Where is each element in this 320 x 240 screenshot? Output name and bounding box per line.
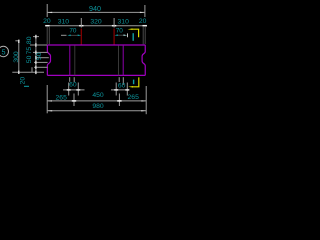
svg-text:80: 80 xyxy=(26,36,33,44)
60 dim left line xyxy=(63,89,85,91)
beam interior vertical magenta right xyxy=(122,45,124,75)
svg-text:50: 50 xyxy=(36,52,43,60)
yellow leader bottom xyxy=(133,77,139,86)
svg-text:70: 70 xyxy=(116,28,124,35)
svg-text:310: 310 xyxy=(58,19,70,26)
svg-text:450: 450 xyxy=(92,92,104,99)
ext y52.4 xyxy=(33,51,48,53)
dim 940 ext line right xyxy=(144,5,146,17)
vert dim line x35.9 xyxy=(35,37,37,73)
cyan bar bottom right xyxy=(133,80,135,85)
red centerline left xyxy=(80,29,82,45)
dim 70 left arrow a xyxy=(67,35,71,37)
row2 tick x145 xyxy=(143,25,147,27)
beam bottom edge xyxy=(47,74,145,76)
cyan dash xyxy=(24,85,29,87)
dim 940 arrow right xyxy=(140,12,145,13)
beam interior vertical magenta left xyxy=(69,45,71,75)
svg-text:60: 60 xyxy=(69,82,77,89)
svg-text:20: 20 xyxy=(20,77,27,85)
white stub above red right xyxy=(113,18,115,28)
stub below beam x69.7 xyxy=(69,77,71,82)
svg-text:70: 70 xyxy=(69,28,77,35)
yellow leader top xyxy=(132,29,139,37)
60 dim left ext b xyxy=(77,83,79,96)
60 dim left cross b xyxy=(76,89,80,91)
ext y36.6 xyxy=(33,36,39,38)
60 dim right ext b xyxy=(126,83,128,96)
60 dim right cross b xyxy=(125,89,129,91)
svg-text:20: 20 xyxy=(139,18,147,25)
ext y62.4 xyxy=(34,61,48,63)
beam right edge with notch xyxy=(142,45,145,75)
white stub above red left xyxy=(80,18,82,28)
980 arrow right xyxy=(141,110,146,111)
60 dim right ext a xyxy=(115,83,117,96)
faint ext verticals right pair xyxy=(142,27,144,44)
60 dim left cross a xyxy=(67,89,71,91)
red centerline right xyxy=(113,29,115,45)
dim 70 left arrow b xyxy=(78,35,82,37)
left balloon circle xyxy=(0,46,8,56)
svg-text:265: 265 xyxy=(56,94,68,101)
dim 70 right mid faint xyxy=(118,34,124,36)
980 arrow left xyxy=(47,110,52,111)
vert dim line x18.8 xyxy=(18,41,20,72)
ext y45 xyxy=(30,44,47,46)
ext y72.3 long xyxy=(12,71,44,73)
980 dim line xyxy=(47,110,146,112)
tick 47 xyxy=(47,100,52,101)
tick 119 xyxy=(117,100,121,102)
stub below beam x123.3 xyxy=(122,77,124,85)
265 row boundary vertical right xyxy=(118,94,120,107)
svg-text:60: 60 xyxy=(118,82,126,89)
svg-text:300: 300 xyxy=(13,51,20,63)
dim 70 left line tail xyxy=(61,34,67,36)
faint ext verticals left pair xyxy=(46,27,48,44)
bottom ext vertical left xyxy=(46,85,48,113)
beam interior vertical dark right xyxy=(118,46,120,76)
row2 tick x47 xyxy=(45,25,49,27)
dim 940 ext line left xyxy=(46,4,48,17)
svg-text:265: 265 xyxy=(128,94,140,101)
ext y67.3 xyxy=(34,66,48,68)
svg-text:310: 310 xyxy=(118,19,130,26)
60 dim right cross a xyxy=(114,89,118,91)
dim 940 line xyxy=(47,11,145,13)
dim 940 arrow left xyxy=(47,12,52,13)
beam interior vertical dark left xyxy=(74,46,76,76)
cyan ext vertical x132 xyxy=(132,33,134,41)
row2 tick x114 xyxy=(112,25,116,27)
svg-text:5: 5 xyxy=(2,48,6,57)
stub below beam x74.2 xyxy=(73,77,75,82)
tick 74 xyxy=(72,100,76,102)
svg-text:980: 980 xyxy=(92,103,104,110)
stub below beam x119.2 xyxy=(118,77,120,82)
beam top edge xyxy=(47,44,145,46)
cap tick top of x18.8 xyxy=(15,40,19,42)
svg-text:320: 320 xyxy=(90,19,102,26)
beam left edge with notch xyxy=(47,45,50,75)
60 dim right line xyxy=(111,89,127,91)
row2 tick x81 xyxy=(79,25,83,27)
dim 70 right arrow a xyxy=(114,34,118,36)
dim 70 left mid faint xyxy=(71,34,78,36)
svg-text:50: 50 xyxy=(26,55,33,63)
row2 dim line xyxy=(46,25,147,27)
dim 70 right arrow b xyxy=(124,34,128,36)
60 dim left ext a xyxy=(68,83,70,96)
svg-text:940: 940 xyxy=(89,4,101,13)
ext y57.7 xyxy=(37,57,49,59)
bottom ext vertical right xyxy=(145,86,147,114)
tick 146 xyxy=(141,100,146,101)
svg-text:20: 20 xyxy=(43,18,51,25)
265 row boundary vertical left xyxy=(73,94,75,107)
dim chain bright ticks xyxy=(35,43,37,47)
svg-text:75: 75 xyxy=(26,47,33,55)
265 row dim line xyxy=(47,100,146,102)
dim 70 right ext line xyxy=(127,33,129,37)
ext vertical x32 xyxy=(31,67,33,72)
